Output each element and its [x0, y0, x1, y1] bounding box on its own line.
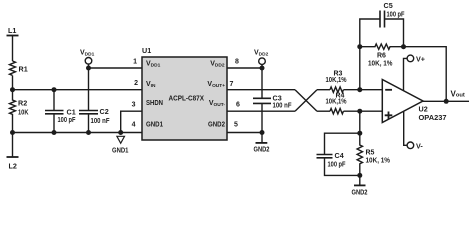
- node feedback left: [357, 44, 362, 49]
- wire to R3: [317, 89, 330, 91]
- capacitor C2: [79, 68, 98, 133]
- supply terminal VDD2: [259, 58, 266, 65]
- node junction left bottom rail: [10, 130, 15, 135]
- svg-text:GND2: GND2: [208, 122, 225, 129]
- svg-text:ACPL-C87X: ACPL-C87X: [169, 94, 205, 103]
- svg-text:R5: R5: [366, 150, 375, 157]
- resistor R6: [360, 44, 404, 49]
- svg-text:10K,1%: 10K,1%: [326, 99, 348, 106]
- resistor R2: [10, 90, 16, 133]
- ground GND2 chip: [256, 133, 268, 143]
- svg-text:10K, 1%: 10K, 1%: [368, 61, 393, 68]
- node C1 bottom: [52, 130, 57, 135]
- svg-text:R2: R2: [18, 99, 27, 108]
- svg-text:10K: 10K: [18, 108, 29, 117]
- resistor R1: [10, 61, 16, 75]
- node C4 bottom: [357, 173, 362, 178]
- resistor R5: [357, 133, 362, 175]
- svg-text:L2: L2: [9, 161, 17, 170]
- wire to R4: [317, 110, 330, 112]
- wire pin 5: [227, 132, 262, 134]
- svg-text:100 nF: 100 nF: [273, 101, 292, 110]
- node output: [444, 99, 449, 104]
- resistor R3: [330, 87, 343, 92]
- svg-text:5: 5: [234, 122, 238, 129]
- wire R4 to node: [344, 110, 383, 112]
- node C4 top: [357, 131, 362, 136]
- svg-text:7: 7: [230, 81, 234, 88]
- wire bottom rail to pin 4: [13, 132, 143, 134]
- svg-text:V+: V+: [416, 55, 425, 64]
- node noninverting input: [357, 109, 362, 114]
- resistor R4: [330, 109, 343, 114]
- svg-text:100 pF: 100 pF: [387, 10, 405, 19]
- svg-text:GND2: GND2: [352, 188, 368, 197]
- capacitor C5 branch: [360, 11, 404, 47]
- node VDD1: [86, 66, 91, 71]
- svg-text:C2: C2: [100, 107, 109, 116]
- capacitor C4 branch: [317, 133, 360, 175]
- svg-text:100 pF: 100 pF: [328, 160, 346, 169]
- wire R1 to node: [12, 76, 14, 90]
- wire V- stub: [404, 112, 407, 146]
- wire L1 to R1: [12, 36, 14, 62]
- wire pin 8: [227, 67, 262, 69]
- svg-text:OPA237: OPA237: [419, 113, 447, 122]
- wire VDD1 to pin1 node: [88, 64, 90, 68]
- node VDD2: [260, 66, 265, 71]
- svg-text:2: 2: [134, 80, 138, 87]
- supply terminal V-: [407, 142, 414, 149]
- node junction left VIN: [10, 87, 15, 92]
- terminal L2: [7, 156, 19, 158]
- svg-text:R6: R6: [377, 53, 386, 60]
- node feedback right: [401, 44, 406, 49]
- wire VIN line to pin 2: [13, 89, 143, 91]
- op-amp minus sign: [385, 89, 392, 91]
- svg-text:U1: U1: [142, 46, 151, 55]
- svg-text:8: 8: [235, 59, 239, 66]
- wire pin 3 to GND1: [121, 111, 142, 132]
- node GND1: [118, 130, 123, 135]
- node C1 top: [52, 87, 57, 92]
- svg-text:GND1: GND1: [112, 146, 129, 155]
- supply terminal VDD1: [85, 58, 92, 65]
- wire feedback left vertical: [359, 47, 361, 90]
- op-amp U1 chip body: [142, 57, 227, 140]
- wire pin 1: [89, 67, 143, 69]
- svg-text:100 pF: 100 pF: [58, 115, 76, 124]
- capacitor C1: [45, 90, 64, 133]
- wire V+ stub: [404, 58, 408, 90]
- supply terminal V+: [407, 55, 414, 62]
- op-amp plus sign: [385, 112, 393, 120]
- ground GND1: [117, 136, 125, 143]
- wire feedback to output: [404, 47, 447, 102]
- svg-text:4: 4: [132, 122, 136, 129]
- capacitor C3: [253, 68, 271, 133]
- svg-text:R1: R1: [19, 65, 28, 74]
- svg-text:GND1: GND1: [146, 122, 163, 129]
- wire VDD2 stub: [261, 65, 263, 69]
- node C2 bottom: [86, 130, 91, 135]
- svg-text:V-: V-: [416, 142, 423, 151]
- svg-text:L1: L1: [8, 26, 16, 35]
- terminal L1: [7, 35, 19, 37]
- wire R3 to node: [344, 89, 383, 91]
- svg-text:100 nF: 100 nF: [91, 116, 110, 125]
- wire output: [423, 100, 469, 102]
- wire pin 7: [227, 89, 295, 91]
- svg-text:SHDN: SHDN: [146, 100, 163, 107]
- wire to L2: [12, 133, 14, 158]
- wire lower input vertical: [359, 111, 361, 133]
- svg-text:10K, 1%: 10K, 1%: [366, 158, 391, 165]
- svg-text:6: 6: [236, 102, 240, 109]
- node inverting input: [357, 87, 362, 92]
- wire pin 6: [227, 110, 295, 112]
- node pin5 GND2: [260, 130, 265, 135]
- svg-text:3: 3: [132, 102, 136, 109]
- op-amp U2: [382, 80, 423, 123]
- wire crossover: [295, 90, 317, 112]
- ground GND2 bottom: [354, 175, 366, 185]
- svg-text:10K,1%: 10K,1%: [326, 77, 348, 84]
- svg-text:GND2: GND2: [254, 145, 270, 154]
- svg-text:1: 1: [133, 59, 137, 66]
